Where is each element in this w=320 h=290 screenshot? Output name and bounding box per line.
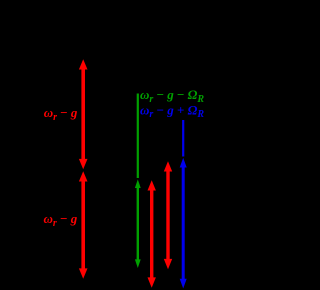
green double arrow (omega_r - g - Omega_R) [135,179,141,268]
green pointer line from label [137,94,139,179]
red double arrow upper-left (omega_r - g transition, top) [79,59,88,169]
svg-text:ωr − g: ωr − g [44,211,78,229]
svg-text:ωr − g: ωr − g [44,105,78,123]
red double arrow lower-left (omega_r - g transition, bottom) [79,171,88,279]
blue pointer line from label [182,120,184,157]
red double arrow mid-right (omega_r - g) [164,161,172,269]
red double arrow mid-left (omega_r - g) [148,180,156,288]
blue double arrow (omega_r - g + Omega_R) [180,158,187,289]
